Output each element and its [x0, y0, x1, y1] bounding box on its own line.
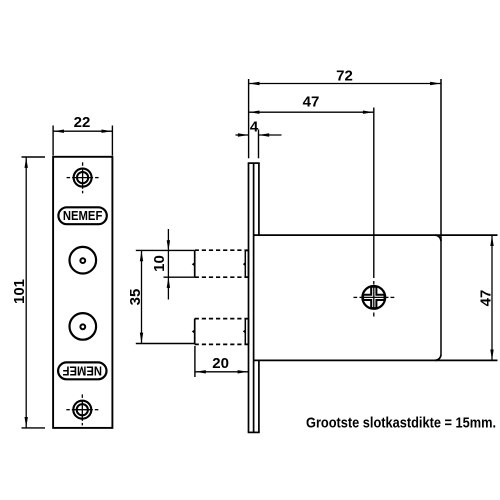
dim 20 right arrow	[238, 370, 249, 373]
svg-text:72: 72	[336, 68, 353, 85]
screw hole bottom (target symbol)	[66, 394, 98, 425]
svg-text:35: 35	[127, 289, 144, 306]
case screw (phillips)	[362, 286, 385, 309]
svg-text:10: 10	[151, 255, 168, 272]
bolt 1 left marker triangle	[192, 262, 195, 266]
svg-text:Grootste slotkastdikte = 15mm.: Grootste slotkastdikte = 15mm.	[306, 414, 496, 431]
dimension 20 (bolt protrusion)	[195, 346, 249, 377]
dimension 72 (case depth overall)	[249, 79, 441, 158]
bolt 1 end stub at faceplate	[245, 251, 248, 278]
hole circle 1 center dot	[80, 258, 85, 263]
bolt 2 stub marker triangle	[243, 329, 245, 333]
dim 72 left arrow	[249, 82, 260, 85]
NEMEF logo bottom (rotated 180)	[58, 362, 106, 379]
bolt hole 1 (hidden, dashed)	[195, 250, 249, 277]
svg-text:47: 47	[303, 94, 320, 111]
NEMEF logo top	[58, 207, 106, 224]
lock case body bottom-right rounded corner	[435, 354, 441, 360]
dim 47 top left arrow	[249, 111, 260, 114]
side view: faceplate strip inner line upper part	[258, 163, 260, 235]
dim 101 bottom arrow	[25, 417, 28, 428]
side view: faceplate strip top cap	[248, 162, 260, 164]
dim 4 right arrow	[259, 133, 270, 136]
dim 4 left arrow	[238, 133, 249, 136]
screw hole top (target symbol)	[67, 162, 99, 193]
lock case body bottom edge (extends right as extension line for 47)	[254, 359, 498, 361]
hole circle 2 center dot	[80, 324, 85, 329]
dim 101 top arrow	[25, 157, 28, 168]
lock case body right edge (extends up as extension line for 72)	[440, 79, 442, 354]
svg-text:NEMEF: NEMEF	[63, 209, 103, 223]
hole circle 2	[70, 313, 97, 340]
dim 20 left arrow	[195, 370, 206, 373]
bolt 2 end stub at faceplate	[245, 319, 248, 344]
dimension 10 (bolt height)	[164, 229, 195, 300]
side view: faceplate strip middle line	[253, 163, 255, 432]
dim 10 lower arrow	[167, 277, 170, 288]
dim 22 right arrow	[102, 130, 113, 133]
side view: faceplate strip bottom cap	[248, 431, 260, 433]
svg-text:20: 20	[212, 355, 229, 372]
bolt hole 2 (hidden, dashed)	[195, 319, 249, 345]
lock case body top edge (extends right as extension line for 47)	[254, 234, 498, 236]
hole circle 1	[70, 247, 97, 274]
case screw crosshair horizontal	[354, 296, 395, 298]
dim 72 right arrow	[430, 82, 441, 85]
dimension 47 (case height, right)	[491, 235, 493, 360]
side view: faceplate strip inner line lower part	[258, 360, 260, 432]
svg-text:4: 4	[250, 118, 259, 135]
svg-text:47: 47	[477, 290, 494, 307]
svg-text:101: 101	[11, 279, 28, 304]
lock case body top-right rounded corner	[435, 235, 441, 241]
side view: faceplate strip outer line	[248, 163, 250, 432]
case screw crosshair vertical + extension line to dim 47	[373, 108, 375, 317]
dimension 101 (plate height)	[22, 157, 46, 428]
faceplate front view outline	[53, 157, 112, 428]
dim 35 top arrow	[140, 251, 143, 262]
dim 47 right bottom arrow	[490, 350, 493, 361]
bolt 1 stub marker triangle	[243, 262, 245, 266]
dim 47 top right arrow	[363, 111, 374, 114]
dimension 22 (plate width)	[53, 126, 112, 156]
dimension 47 (to screw center)	[249, 111, 374, 113]
bolt 2 left marker triangle	[192, 329, 195, 333]
dim 47 right top arrow	[490, 235, 493, 246]
dim 10 upper arrow	[167, 240, 170, 251]
dimension 4 (faceplate thickness)	[236, 130, 282, 159]
dim 35 bottom arrow	[140, 333, 143, 344]
dim 22 left arrow	[53, 130, 64, 133]
svg-text:22: 22	[74, 114, 91, 131]
svg-text:NEMEF: NEMEF	[62, 364, 102, 378]
dimension 35 (bolt span)	[136, 250, 194, 343]
